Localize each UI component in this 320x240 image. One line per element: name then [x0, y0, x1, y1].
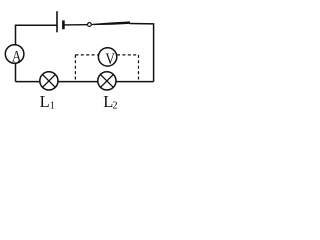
- lamp L2 body: [98, 72, 116, 90]
- battery cell: long positive plate: [56, 11, 58, 32]
- voltmeter dashed lead: left horizontal: [75, 54, 98, 56]
- svg-text:V: V: [105, 51, 115, 68]
- voltmeter U2 body: [98, 48, 116, 66]
- wire: battery to switch: [63, 24, 87, 26]
- voltmeter U2 label V: [105, 51, 115, 68]
- ammeter U1 body: [5, 45, 24, 64]
- switch S: open blade: [92, 21, 130, 25]
- wire: bottom horizontal: [16, 81, 154, 83]
- voltmeter dashed lead: left vertical: [74, 55, 76, 82]
- voltmeter dashed lead: right horizontal: [117, 54, 139, 56]
- switch S: pivot terminal circle: [88, 23, 92, 27]
- svg-text:2: 2: [112, 101, 117, 112]
- voltmeter dashed lead: right vertical: [138, 55, 140, 82]
- wire: right vertical and top-right segment: [130, 24, 154, 82]
- ammeter U1 label A: [12, 48, 22, 65]
- battery cell: short negative plate: [62, 20, 65, 29]
- svg-text:L: L: [40, 92, 50, 111]
- svg-text:A: A: [12, 48, 22, 65]
- lamp L1 filament X: [42, 74, 55, 87]
- lamp L1 body: [40, 72, 58, 90]
- wire: left vertical and top-left segment: [16, 25, 58, 81]
- svg-text:1: 1: [50, 100, 55, 111]
- lamp L2 filament X: [100, 74, 113, 87]
